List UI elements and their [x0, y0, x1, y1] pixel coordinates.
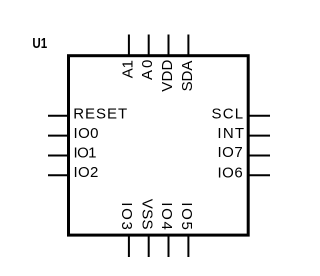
- svg-text:U1: U1: [32, 35, 47, 52]
- svg-text:VSS: VSS: [139, 199, 156, 230]
- pin IO0 wire: [48, 135, 69, 137]
- svg-text:SCL: SCL: [212, 105, 244, 122]
- svg-text:IO7: IO7: [218, 144, 243, 161]
- ic body U1: [69, 56, 249, 235]
- pin A0 wire: [148, 35, 150, 56]
- pin IO4 wire: [168, 235, 170, 257]
- pin IO5 wire: [187, 235, 189, 257]
- svg-text:RESET: RESET: [73, 106, 127, 123]
- svg-text:IO4: IO4: [158, 202, 175, 230]
- pin VDD wire: [168, 35, 170, 56]
- svg-text:IO0: IO0: [74, 125, 99, 142]
- pin IO3 wire: [128, 235, 130, 257]
- svg-text:VDD: VDD: [159, 59, 176, 91]
- svg-text:A0: A0: [139, 60, 156, 80]
- pin IO2 wire: [48, 174, 69, 176]
- pin INT wire: [248, 135, 270, 137]
- pin VSS wire: [148, 235, 150, 257]
- svg-text:A1: A1: [120, 60, 137, 78]
- pin RESET wire: [48, 115, 69, 117]
- svg-text:IO1: IO1: [74, 144, 97, 161]
- svg-text:IO2: IO2: [74, 164, 99, 181]
- pin IO7 wire: [248, 155, 270, 157]
- svg-text:IO3: IO3: [118, 202, 135, 230]
- svg-text:IO6: IO6: [218, 165, 243, 182]
- pin IO6 wire: [248, 174, 270, 176]
- pin SDA wire: [187, 35, 189, 56]
- pin SCL wire: [248, 115, 270, 117]
- pin IO1 wire: [48, 155, 69, 157]
- svg-text:SDA: SDA: [179, 61, 196, 92]
- pin A1 wire: [128, 35, 130, 56]
- svg-text:INT: INT: [217, 125, 244, 142]
- svg-text:IO5: IO5: [178, 202, 195, 230]
